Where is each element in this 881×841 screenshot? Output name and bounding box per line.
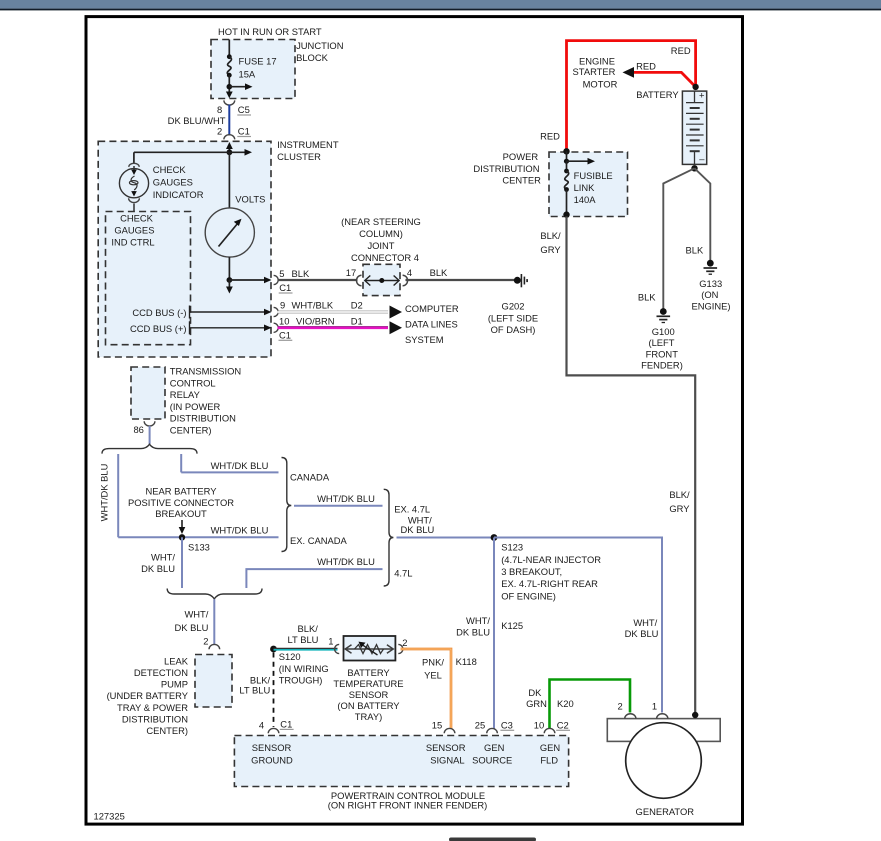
joint connector 4: [341, 216, 421, 296]
brace: split under relay: [102, 444, 197, 453]
svg-text:G202: G202: [502, 301, 525, 312]
svg-text:POWER: POWER: [503, 151, 539, 162]
svg-text:(LEFT SIDE: (LEFT SIDE: [488, 312, 538, 323]
svg-text:RED: RED: [636, 61, 656, 72]
svg-text:15: 15: [432, 719, 442, 730]
connector pin 86: [133, 421, 154, 435]
svg-text:D2: D2: [351, 300, 363, 311]
leak detection pump: [107, 655, 232, 737]
connector C1 pin 4 (PCM): [259, 718, 294, 733]
node: PDC top junction: [563, 148, 569, 154]
svg-text:CONNECTOR 4: CONNECTOR 4: [351, 252, 419, 263]
svg-text:SOURCE: SOURCE: [472, 754, 512, 765]
svg-text:INSTRUMENT: INSTRUMENT: [277, 139, 339, 150]
svg-text:MOTOR: MOTOR: [583, 79, 618, 90]
svg-text:K125: K125: [501, 620, 523, 631]
svg-text:TEMPERATURE: TEMPERATURE: [333, 678, 403, 689]
connector C3 pin 25 (PCM): [475, 719, 514, 733]
svg-text:ENGINE: ENGINE: [579, 56, 615, 67]
wire BLK/LT BLU (S120 to battery temperature sensor pin 1): [274, 623, 338, 650]
connector C1 pin 9: [274, 299, 286, 316]
generator: [607, 719, 720, 817]
svg-text:BLK: BLK: [292, 268, 310, 279]
wire BLK (joint connector to G202): [406, 267, 515, 280]
splice S120: [270, 646, 329, 686]
svg-text:(ON RIGHT FRONT INNER FENDER): (ON RIGHT FRONT INNER FENDER): [328, 800, 488, 811]
svg-text:G133: G133: [699, 278, 722, 289]
svg-text:140A: 140A: [574, 194, 597, 205]
svg-text:4.7L: 4.7L: [394, 568, 412, 579]
wire WHT/DK BLU (S133 down to merge brace): [141, 537, 182, 588]
svg-text:NEAR BATTERY: NEAR BATTERY: [145, 485, 217, 496]
svg-text:SYSTEM: SYSTEM: [405, 334, 444, 345]
wire BLK/GRY (PDC to generator): [540, 217, 695, 716]
wire BLK/LT BLU dashed (S120 to PCM pin 4): [239, 653, 273, 728]
wire PNK/YEL K118 (sensor to PCM pin 15): [401, 649, 477, 729]
svg-text:2: 2: [203, 636, 208, 647]
svg-text:BLOCK: BLOCK: [296, 52, 329, 63]
svg-text:GEN: GEN: [484, 742, 504, 753]
svg-text:LT BLU: LT BLU: [288, 634, 319, 645]
svg-text:WHT/: WHT/: [633, 617, 657, 628]
svg-text:PNK/: PNK/: [422, 657, 444, 668]
svg-text:CONTROL: CONTROL: [170, 377, 216, 388]
svg-text:RED: RED: [540, 130, 560, 141]
junction block: [211, 26, 344, 99]
svg-text:LT BLU: LT BLU: [239, 685, 270, 696]
splice S123: [491, 534, 602, 601]
connector C1 pin 5: [274, 268, 310, 293]
svg-text:GRY: GRY: [669, 503, 690, 514]
svg-text:(ON: (ON: [701, 289, 718, 300]
svg-text:GRN: GRN: [526, 698, 547, 709]
wire BLK (cluster to joint connector 4): [278, 279, 358, 281]
powertrain control module: [234, 736, 568, 811]
svg-text:WHT/DK BLU: WHT/DK BLU: [211, 460, 269, 471]
svg-text:TRAY): TRAY): [355, 711, 382, 722]
wire WHT/DK BLU (left branch vertical): [99, 454, 119, 537]
svg-text:OF DASH): OF DASH): [491, 324, 536, 335]
ground G100: [641, 308, 683, 370]
svg-text:4: 4: [259, 719, 264, 730]
svg-text:10: 10: [279, 315, 289, 326]
svg-text:FENDER): FENDER): [641, 359, 683, 370]
wire: fuse output inside junction block: [226, 75, 253, 98]
wire WHT/DK BLU (CANADA branch): [181, 454, 330, 482]
wire RED (battery to PDC): [540, 41, 695, 152]
connector pin 2 (battery temperature sensor): [398, 637, 407, 654]
svg-text:OF ENGINE): OF ENGINE): [501, 591, 556, 602]
power distribution center: [473, 151, 627, 217]
svg-text:1: 1: [328, 636, 333, 647]
svg-text:CHECK: CHECK: [120, 212, 154, 223]
svg-text:2: 2: [217, 126, 222, 137]
node: computer data lines system: [405, 303, 459, 345]
svg-text:FRONT: FRONT: [646, 349, 679, 360]
svg-text:SENSOR: SENSOR: [349, 689, 389, 700]
wire WHT/BLK D2 (CCD bus -): [278, 299, 403, 318]
svg-text:YEL: YEL: [424, 669, 442, 680]
svg-text:DK BLU/WHT: DK BLU/WHT: [168, 115, 226, 126]
svg-text:C1: C1: [279, 329, 291, 340]
svg-text:COMPUTER: COMPUTER: [405, 303, 459, 314]
svg-text:LINK: LINK: [574, 182, 596, 193]
svg-text:DATA LINES: DATA LINES: [405, 318, 458, 329]
svg-text:C1: C1: [238, 126, 250, 137]
connector pin 1 (battery temperature sensor): [335, 644, 340, 653]
connector C1 pin 2 (cluster): [217, 126, 251, 140]
connector pin 2 (leak detection pump): [209, 644, 220, 649]
svg-text:S123: S123: [501, 541, 523, 552]
wire DK GRN K20 (PCM pin 10 to generator pin 2): [526, 680, 630, 729]
svg-text:CHECK: CHECK: [153, 164, 187, 175]
wire WHT/DK BLU K125 (S123 to PCM pin 25): [456, 538, 523, 729]
svg-text:1: 1: [652, 700, 657, 711]
svg-text:10: 10: [534, 719, 544, 730]
svg-text:WHT/BLK: WHT/BLK: [292, 299, 334, 310]
svg-text:DK BLU: DK BLU: [625, 628, 659, 639]
svg-text:TROUGH): TROUGH): [279, 674, 323, 685]
svg-text:DK BLU: DK BLU: [456, 626, 490, 637]
svg-text:WHT/DK BLU: WHT/DK BLU: [211, 525, 269, 536]
svg-text:WHT/DK BLU: WHT/DK BLU: [317, 556, 375, 567]
svg-text:DK BLU: DK BLU: [400, 524, 434, 535]
callout: near battery positive connector breakout: [128, 485, 234, 534]
wire BLK (battery to G133): [686, 168, 711, 261]
splice S133: [179, 534, 210, 552]
wire VIO/BRN D1 (CCD bus +): [278, 315, 403, 334]
box: check gauges ind ctrl: [106, 212, 191, 345]
svg-text:CANADA: CANADA: [290, 471, 330, 482]
svg-text:ENGINE): ENGINE): [691, 301, 730, 312]
svg-text:K20: K20: [557, 698, 574, 709]
svg-text:BLK: BLK: [430, 267, 448, 278]
svg-text:FUSIBLE: FUSIBLE: [574, 170, 613, 181]
svg-text:TRAY & POWER: TRAY & POWER: [117, 702, 188, 713]
node: battery positive junction: [692, 84, 698, 90]
svg-text:DETECTION: DETECTION: [134, 667, 188, 678]
svg-text:D1: D1: [351, 316, 363, 327]
svg-text:FLD: FLD: [540, 754, 558, 765]
svg-text:WHT/: WHT/: [151, 552, 175, 563]
svg-text:2: 2: [402, 637, 407, 648]
wire: CCD BUS (+) inside cluster: [130, 321, 272, 334]
node: voltmeter bottom junction: [226, 277, 272, 294]
svg-text:(UNDER BATTERY: (UNDER BATTERY: [107, 690, 189, 701]
svg-text:BLK/: BLK/: [669, 489, 690, 500]
svg-text:DK: DK: [528, 687, 542, 698]
wire DK BLU/WHT (fuse to cluster): [168, 105, 230, 136]
connector pin 2 (generator): [617, 700, 636, 718]
svg-text:5: 5: [279, 268, 284, 279]
svg-text:S120: S120: [279, 651, 301, 662]
wire WHT/DK BLU (EX. CANADA branch through S133): [118, 525, 347, 547]
svg-text:9: 9: [280, 299, 285, 310]
svg-text:SIGNAL: SIGNAL: [430, 754, 464, 765]
svg-text:K118: K118: [456, 656, 477, 667]
connector pin 1 (generator): [652, 700, 668, 718]
wire RED (battery to engine starter motor): [623, 61, 696, 87]
svg-text:EX. 4.7L: EX. 4.7L: [394, 503, 430, 514]
wire WHT/DK BLU (4.7L line): [246, 556, 412, 588]
svg-text:DISTRIBUTION: DISTRIBUTION: [170, 413, 236, 424]
svg-text:BREAKOUT: BREAKOUT: [155, 508, 207, 519]
svg-text:CENTER: CENTER: [502, 175, 541, 186]
svg-text:LEAK: LEAK: [164, 655, 189, 666]
wire: to check gauges indicator: [134, 152, 230, 164]
svg-text:8: 8: [217, 104, 222, 115]
svg-text:25: 25: [475, 719, 485, 730]
svg-text:(4.7L-NEAR INJECTOR: (4.7L-NEAR INJECTOR: [501, 554, 601, 565]
ground G202: [488, 274, 538, 335]
node: engine starter motor: [573, 56, 618, 90]
svg-text:(IN WIRING: (IN WIRING: [279, 663, 329, 674]
svg-text:–: –: [699, 153, 705, 164]
svg-text:WHT/: WHT/: [184, 608, 208, 619]
svg-text:EX. 4.7L-RIGHT REAR: EX. 4.7L-RIGHT REAR: [501, 578, 598, 589]
node: battery negative junction: [691, 165, 697, 171]
svg-text:(ON BATTERY: (ON BATTERY: [337, 700, 400, 711]
svg-text:DISTRIBUTION: DISTRIBUTION: [122, 714, 188, 725]
voltmeter VOLTS: [205, 152, 265, 280]
svg-text:DISTRIBUTION: DISTRIBUTION: [473, 163, 539, 174]
svg-text:GAUGES: GAUGES: [114, 224, 154, 235]
svg-text:PUMP: PUMP: [161, 679, 188, 690]
node: generator BLK/GRY junction: [692, 712, 698, 718]
connector C5 pin 8: [217, 100, 251, 115]
wire WHT/DK BLU (relay 86 to split): [149, 426, 151, 444]
svg-text:(NEAR STEERING: (NEAR STEERING: [341, 216, 421, 227]
svg-text:BLK: BLK: [686, 245, 704, 256]
svg-text:G100: G100: [652, 326, 675, 337]
ground G133: [691, 260, 730, 312]
transmission control relay: [131, 366, 241, 436]
svg-text:BLK/: BLK/: [540, 230, 561, 241]
svg-text:CCD BUS (-): CCD BUS (-): [132, 307, 186, 318]
svg-text:BATTERY: BATTERY: [636, 89, 679, 100]
connector C1 pin 10: [274, 315, 293, 340]
svg-text:DK BLU: DK BLU: [141, 563, 175, 574]
svg-text:GAUGES: GAUGES: [153, 176, 193, 187]
svg-text:(IN POWER: (IN POWER: [170, 401, 221, 412]
node: cluster top junction: [227, 149, 253, 156]
brace: merge to leak detection pump: [167, 589, 262, 599]
svg-text:GENERATOR: GENERATOR: [636, 806, 695, 817]
svg-text:FUSE 17: FUSE 17: [239, 56, 277, 67]
wire WHT/DK BLU (EX. 4.7L line): [294, 493, 430, 514]
wire: CCD BUS (-) inside cluster: [132, 306, 271, 319]
battery temperature sensor (thermistor): [333, 636, 403, 722]
svg-text:86: 86: [133, 424, 143, 435]
brace: CANADA / EX.CANADA merge: [282, 458, 292, 552]
svg-text:+: +: [699, 90, 705, 101]
wire WHT/DK BLU (to leak detection pump pin 2): [175, 599, 215, 647]
svg-text:GROUND: GROUND: [251, 754, 293, 765]
svg-text:DK BLU: DK BLU: [175, 622, 209, 633]
svg-text:TRANSMISSION: TRANSMISSION: [170, 366, 241, 377]
svg-text:C5: C5: [238, 104, 250, 115]
svg-text:STARTER: STARTER: [573, 66, 616, 77]
svg-text:POSITIVE CONNECTOR: POSITIVE CONNECTOR: [128, 497, 234, 508]
brace: EX4.7L / 4.7L merge: [384, 489, 394, 586]
svg-text:CLUSTER: CLUSTER: [277, 151, 321, 162]
svg-text:WHT/: WHT/: [466, 615, 490, 626]
svg-text:15A: 15A: [239, 69, 256, 80]
svg-text:BATTERY: BATTERY: [347, 667, 390, 678]
svg-text:WHT/DK BLU: WHT/DK BLU: [99, 463, 110, 521]
svg-text:IND CTRL: IND CTRL: [111, 236, 154, 247]
svg-text:SENSOR: SENSOR: [426, 742, 466, 753]
svg-text:GRY: GRY: [540, 244, 561, 255]
svg-text:C3: C3: [501, 719, 513, 730]
svg-text:BLK: BLK: [638, 292, 656, 303]
svg-text:COLUMN): COLUMN): [359, 228, 403, 239]
svg-text:C1: C1: [279, 282, 291, 293]
svg-text:RED: RED: [671, 45, 691, 56]
wire WHT/DK BLU (to S123): [397, 514, 495, 537]
svg-text:WHT/DK BLU: WHT/DK BLU: [317, 493, 375, 504]
svg-text:GEN: GEN: [540, 742, 560, 753]
fuse F17 15A: [227, 40, 277, 80]
svg-text:C2: C2: [557, 719, 569, 730]
svg-text:BLK/: BLK/: [298, 623, 319, 634]
svg-text:(LEFT: (LEFT: [648, 337, 674, 348]
battery: [636, 89, 706, 164]
instrument cluster: [98, 139, 339, 357]
svg-text:RELAY: RELAY: [170, 389, 201, 400]
svg-text:CENTER): CENTER): [170, 424, 212, 435]
svg-text:4: 4: [407, 267, 412, 278]
svg-text:2: 2: [617, 700, 622, 711]
svg-text:VOLTS: VOLTS: [235, 194, 265, 205]
fusible link 140A: [563, 151, 612, 218]
svg-text:CENTER): CENTER): [146, 725, 188, 736]
svg-text:127325: 127325: [94, 811, 125, 822]
svg-text:3 BREAKOUT,: 3 BREAKOUT,: [501, 566, 562, 577]
svg-text:EX. CANADA: EX. CANADA: [290, 535, 348, 546]
connector pin 15 (PCM): [432, 719, 455, 733]
svg-text:SENSOR: SENSOR: [252, 742, 292, 753]
connector C2 pin 10 (PCM): [534, 719, 570, 733]
svg-text:S133: S133: [188, 541, 210, 552]
svg-text:JOINT: JOINT: [367, 240, 394, 251]
lamp: check gauges indicator: [119, 163, 203, 211]
svg-text:CCD BUS (+): CCD BUS (+): [130, 323, 187, 334]
svg-text:VIO/BRN: VIO/BRN: [296, 315, 335, 326]
wire WHT/DK BLU (S123 to generator pin 1): [494, 538, 662, 713]
svg-text:JUNCTION: JUNCTION: [296, 40, 343, 51]
wire: cluster entry arrow (from C1 pin 2): [226, 142, 233, 152]
svg-text:INDICATOR: INDICATOR: [153, 189, 204, 200]
wire BLK (battery to G100): [638, 168, 695, 310]
svg-text:17: 17: [346, 267, 356, 278]
svg-text:C1: C1: [280, 718, 292, 729]
svg-text:HOT IN RUN OR START: HOT IN RUN OR START: [218, 26, 322, 37]
